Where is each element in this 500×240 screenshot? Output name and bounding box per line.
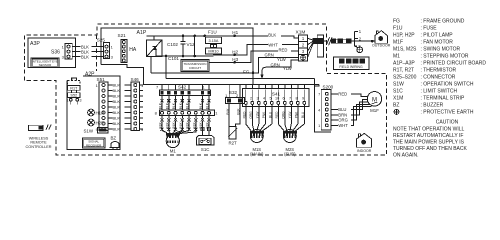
wire BLK	[253, 36, 299, 38]
svg-text:: CONNECTOR: : CONNECTOR	[421, 75, 456, 81]
wire to outdoor house	[351, 40, 372, 42]
wires S32 to R2T	[228, 103, 230, 126]
svg-text:C102: C102	[167, 42, 178, 47]
svg-text:3.15A: 3.15A	[209, 39, 219, 43]
svg-text:(MAIN): (MAIN)	[250, 151, 264, 156]
svg-text:BLK: BLK	[113, 110, 121, 115]
svg-text:2: 2	[250, 97, 252, 101]
svg-text:MR10: MR10	[208, 50, 218, 54]
svg-text:M1F: M1F	[370, 108, 379, 113]
pilot lamp H1P	[88, 109, 95, 116]
svg-text:8: 8	[296, 97, 298, 101]
wireless remote controller	[29, 125, 43, 130]
svg-text:S46: S46	[131, 77, 140, 82]
svg-text:S21: S21	[118, 33, 127, 38]
svg-text:WHT: WHT	[338, 123, 348, 128]
swing motor M1S (main)	[250, 130, 263, 143]
svg-text:BLK: BLK	[172, 121, 176, 128]
svg-text:S1W: S1W	[84, 128, 94, 133]
svg-text:F1U: F1U	[393, 26, 403, 32]
cable converge into grommet	[308, 38, 314, 40]
connector S41 housing	[243, 89, 310, 107]
signal break slash	[49, 124, 52, 129]
svg-text:BLK: BLK	[192, 121, 196, 128]
svg-text:ORG: ORG	[281, 111, 285, 119]
svg-text:: TERMINAL STRIP: : TERMINAL STRIP	[421, 96, 466, 102]
wires S41 to swing motors	[245, 104, 247, 124]
svg-text:A1P: A1P	[137, 30, 147, 36]
wire WHT	[235, 45, 299, 55]
top supply rail	[147, 35, 254, 37]
svg-text:NOTE THAT OPERATION WILL: NOTE THAT OPERATION WILL	[393, 127, 465, 133]
svg-text:: SWING MOTOR: : SWING MOTOR	[421, 47, 461, 53]
wires S36 to S25 (BLK x3)	[72, 46, 80, 48]
svg-text:S200: S200	[323, 85, 334, 90]
svg-text:F1U: F1U	[208, 29, 217, 34]
svg-text:: FRAME GROUND: : FRAME GROUND	[421, 19, 465, 25]
svg-text:V1Z: V1Z	[187, 42, 196, 47]
svg-text:1: 1	[318, 124, 320, 128]
svg-text:BZ: BZ	[111, 136, 117, 141]
A1P printed circuit board outline	[101, 28, 253, 85]
svg-text:R2T: R2T	[228, 141, 237, 146]
svg-text:(SUB): (SUB)	[284, 151, 296, 156]
intelligent eye sensor label	[31, 58, 59, 68]
svg-text:FIELD WIRING: FIELD WIRING	[339, 65, 363, 69]
svg-text:M1S, M2S: M1S, M2S	[393, 47, 417, 53]
wire	[153, 36, 155, 40]
svg-text:R1T: R1T	[70, 86, 78, 90]
svg-text:1: 1	[67, 99, 69, 103]
svg-text:9: 9	[302, 97, 304, 101]
svg-text:BZ: BZ	[393, 103, 399, 109]
svg-text:4: 4	[318, 108, 320, 112]
connector S200	[314, 79, 331, 132]
svg-text:YLW: YLW	[277, 57, 286, 62]
svg-text:: BUZZER: : BUZZER	[421, 103, 444, 109]
svg-text:CAUTION: CAUTION	[436, 119, 459, 125]
svg-text:A1P–A3P: A1P–A3P	[393, 61, 415, 67]
connector S52	[68, 93, 81, 98]
outdoor terminal bracket	[351, 40, 354, 42]
svg-text:BLK: BLK	[113, 83, 121, 88]
svg-text:4: 4	[263, 97, 265, 101]
svg-text:M1: M1	[170, 149, 177, 154]
svg-text:BLK: BLK	[186, 102, 190, 109]
svg-text:1: 1	[244, 97, 246, 101]
svg-text:RED: RED	[242, 111, 246, 118]
svg-text:BLK: BLK	[179, 121, 183, 128]
svg-text:BLK: BLK	[113, 105, 121, 110]
svg-text:S25–S200: S25–S200	[393, 75, 417, 81]
svg-text:RECEIVER: RECEIVER	[86, 143, 102, 147]
svg-text:X1M: X1M	[393, 96, 403, 102]
svg-text:M1: M1	[393, 54, 400, 60]
svg-text:BLK: BLK	[237, 108, 241, 115]
signal receiver block	[83, 138, 106, 148]
signal break slash	[46, 124, 49, 129]
cable break slash	[326, 37, 329, 45]
svg-text:S1W: S1W	[393, 82, 404, 88]
svg-text:ORG: ORG	[249, 111, 253, 119]
svg-text:RESTART AUTOMATICALLY IF: RESTART AUTOMATICALLY IF	[393, 133, 463, 139]
svg-text:BLK: BLK	[113, 99, 121, 104]
svg-text:: FUSE: : FUSE	[421, 26, 438, 32]
svg-text:BLU: BLU	[268, 111, 272, 118]
svg-text:A3P: A3P	[30, 41, 40, 47]
svg-text:3: 3	[257, 97, 259, 101]
svg-text:BLK: BLK	[159, 102, 163, 109]
svg-text:ORG: ORG	[338, 118, 348, 123]
indoor unit dashed boundary	[25, 24, 387, 155]
svg-text:: STEPPING MOTOR: : STEPPING MOTOR	[421, 54, 469, 60]
svg-text:5: 5	[270, 97, 272, 101]
svg-text:WHT: WHT	[268, 42, 278, 47]
limit switch S1C	[201, 127, 204, 131]
svg-text:: PILOT LAMP: : PILOT LAMP	[421, 33, 454, 39]
svg-text:BLK: BLK	[199, 102, 203, 109]
bottom rail	[156, 55, 214, 57]
svg-text:YLW: YLW	[283, 66, 292, 71]
svg-text:YLW: YLW	[255, 112, 259, 119]
svg-text:BLK: BLK	[113, 88, 121, 93]
protective earth symbol outdoor	[354, 46, 357, 47]
svg-text:BLU: BLU	[338, 107, 346, 112]
svg-text:ON AGAIN.: ON AGAIN.	[393, 153, 419, 159]
svg-text:BLK: BLK	[226, 108, 230, 115]
svg-text:HA: HA	[129, 47, 137, 53]
svg-text:RED: RED	[279, 47, 288, 52]
svg-text:S52: S52	[70, 94, 77, 98]
svg-text:FG: FG	[243, 70, 250, 75]
outdoor unit house icon	[372, 31, 391, 48]
protective earth terminal on X1M	[301, 55, 306, 60]
wire RED	[235, 51, 299, 62]
svg-text:BLK: BLK	[113, 127, 121, 132]
svg-text:: OPERATION SWITCH: : OPERATION SWITCH	[421, 82, 474, 88]
wire FG rail	[150, 57, 152, 73]
svg-text:BLK: BLK	[206, 102, 210, 109]
wire GRN/YLW earth with arrow to frame	[266, 60, 299, 67]
svg-text:CONTROLLER: CONTROLLER	[26, 145, 52, 149]
svg-text:INDOOR: INDOOR	[357, 149, 372, 153]
svg-text:S1C: S1C	[201, 147, 210, 152]
svg-text:BLK: BLK	[268, 33, 276, 38]
svg-text:PNK: PNK	[262, 111, 266, 118]
svg-text:RED: RED	[338, 91, 347, 96]
svg-text:BLK: BLK	[113, 121, 121, 126]
svg-text:A2P: A2P	[85, 71, 95, 77]
svg-text:BLK: BLK	[113, 94, 121, 99]
thermistor R2T	[229, 127, 236, 139]
svg-text:BLK: BLK	[113, 116, 121, 121]
svg-text:H1P, H2P: H1P, H2P	[393, 33, 415, 39]
transmission circuit block	[181, 60, 209, 72]
svg-text:BLK: BLK	[172, 102, 176, 109]
svg-text:S36: S36	[51, 50, 60, 56]
stepping motor M1	[166, 134, 179, 147]
svg-text:OUTDOOR: OUTDOOR	[372, 44, 391, 48]
indoor unit house icon	[357, 133, 372, 152]
wire GRN/YLW earth to X1M	[253, 58, 299, 73]
svg-text:BLK: BLK	[165, 121, 169, 128]
svg-text:: THERMISTOR: : THERMISTOR	[421, 68, 457, 74]
svg-text:BLK: BLK	[165, 102, 169, 109]
svg-text:M1F: M1F	[393, 40, 403, 46]
svg-text:PNK: PNK	[294, 111, 298, 118]
wire	[165, 56, 167, 79]
wire MR10 to H2	[214, 54, 235, 56]
swing motor M2S (sub)	[283, 130, 296, 143]
svg-text:S51: S51	[97, 77, 106, 82]
svg-text:THE MAIN POWER SUPPLY IS: THE MAIN POWER SUPPLY IS	[393, 140, 465, 146]
svg-text:H1: H1	[232, 30, 238, 35]
svg-text:7: 7	[318, 93, 320, 97]
svg-text:S1C: S1C	[393, 89, 403, 95]
pilot lamp H2P	[88, 119, 95, 126]
wire	[180, 131, 196, 134]
wire	[155, 50, 157, 56]
relay MR10	[206, 48, 222, 54]
svg-text:CIRCUIT: CIRCUIT	[189, 66, 201, 70]
wall grommet	[317, 35, 323, 57]
cable break slash	[329, 37, 332, 45]
svg-text:C101: C101	[168, 56, 179, 61]
wires S42 down BLK x7	[161, 95, 163, 110]
svg-text:BLU: BLU	[301, 111, 305, 118]
svg-text:: LIMIT SWITCH: : LIMIT SWITCH	[421, 89, 458, 95]
svg-text:BLK: BLK	[81, 54, 89, 59]
svg-text:TURNED OFF AND THEN BACK: TURNED OFF AND THEN BACK	[393, 146, 467, 152]
legend protective earth row	[394, 109, 399, 114]
svg-text:RED: RED	[275, 111, 279, 118]
A3P enclosure dashed right edge	[96, 35, 98, 71]
svg-text:R1T, R2T: R1T, R2T	[393, 68, 414, 74]
svg-text:BLK: BLK	[159, 121, 163, 128]
thermistor R1T (room)	[72, 78, 77, 80]
svg-text:: FAN MOTOR: : FAN MOTOR	[421, 40, 454, 46]
svg-text:BLK: BLK	[186, 121, 190, 128]
svg-text:6: 6	[283, 97, 285, 101]
svg-text:YLW: YLW	[288, 112, 292, 119]
svg-text:GRN: GRN	[271, 62, 280, 67]
wires to M1 and S1C	[161, 116, 163, 119]
wires S200 to M1F	[331, 94, 368, 97]
svg-text:BLK: BLK	[179, 102, 183, 109]
wire S200 feed	[166, 78, 314, 80]
svg-text:FG: FG	[393, 19, 400, 25]
svg-text:3: 3	[80, 99, 82, 103]
svg-text:BRN: BRN	[338, 112, 347, 117]
svg-text:7: 7	[289, 97, 291, 101]
A3P printed circuit board (intelligent eye)	[28, 38, 76, 68]
wires S51-S46 BLK x9	[108, 84, 113, 86]
svg-text:GRN: GRN	[265, 52, 274, 57]
svg-text:SENSOR: SENSOR	[39, 63, 53, 67]
svg-text:: PROTECTIVE EARTH: : PROTECTIVE EARTH	[421, 110, 474, 116]
diode bridge rectifier	[147, 40, 163, 57]
striped cable run	[332, 39, 336, 43]
svg-text:: PRINTED CIRCUIT BOARD: : PRINTED CIRCUIT BOARD	[421, 61, 487, 67]
capacitor C101	[165, 55, 168, 58]
A2P printed circuit board	[67, 76, 120, 150]
field wiring legend box	[334, 57, 370, 70]
fan motor M1F	[367, 92, 381, 106]
wire transmission to H3	[209, 61, 235, 63]
